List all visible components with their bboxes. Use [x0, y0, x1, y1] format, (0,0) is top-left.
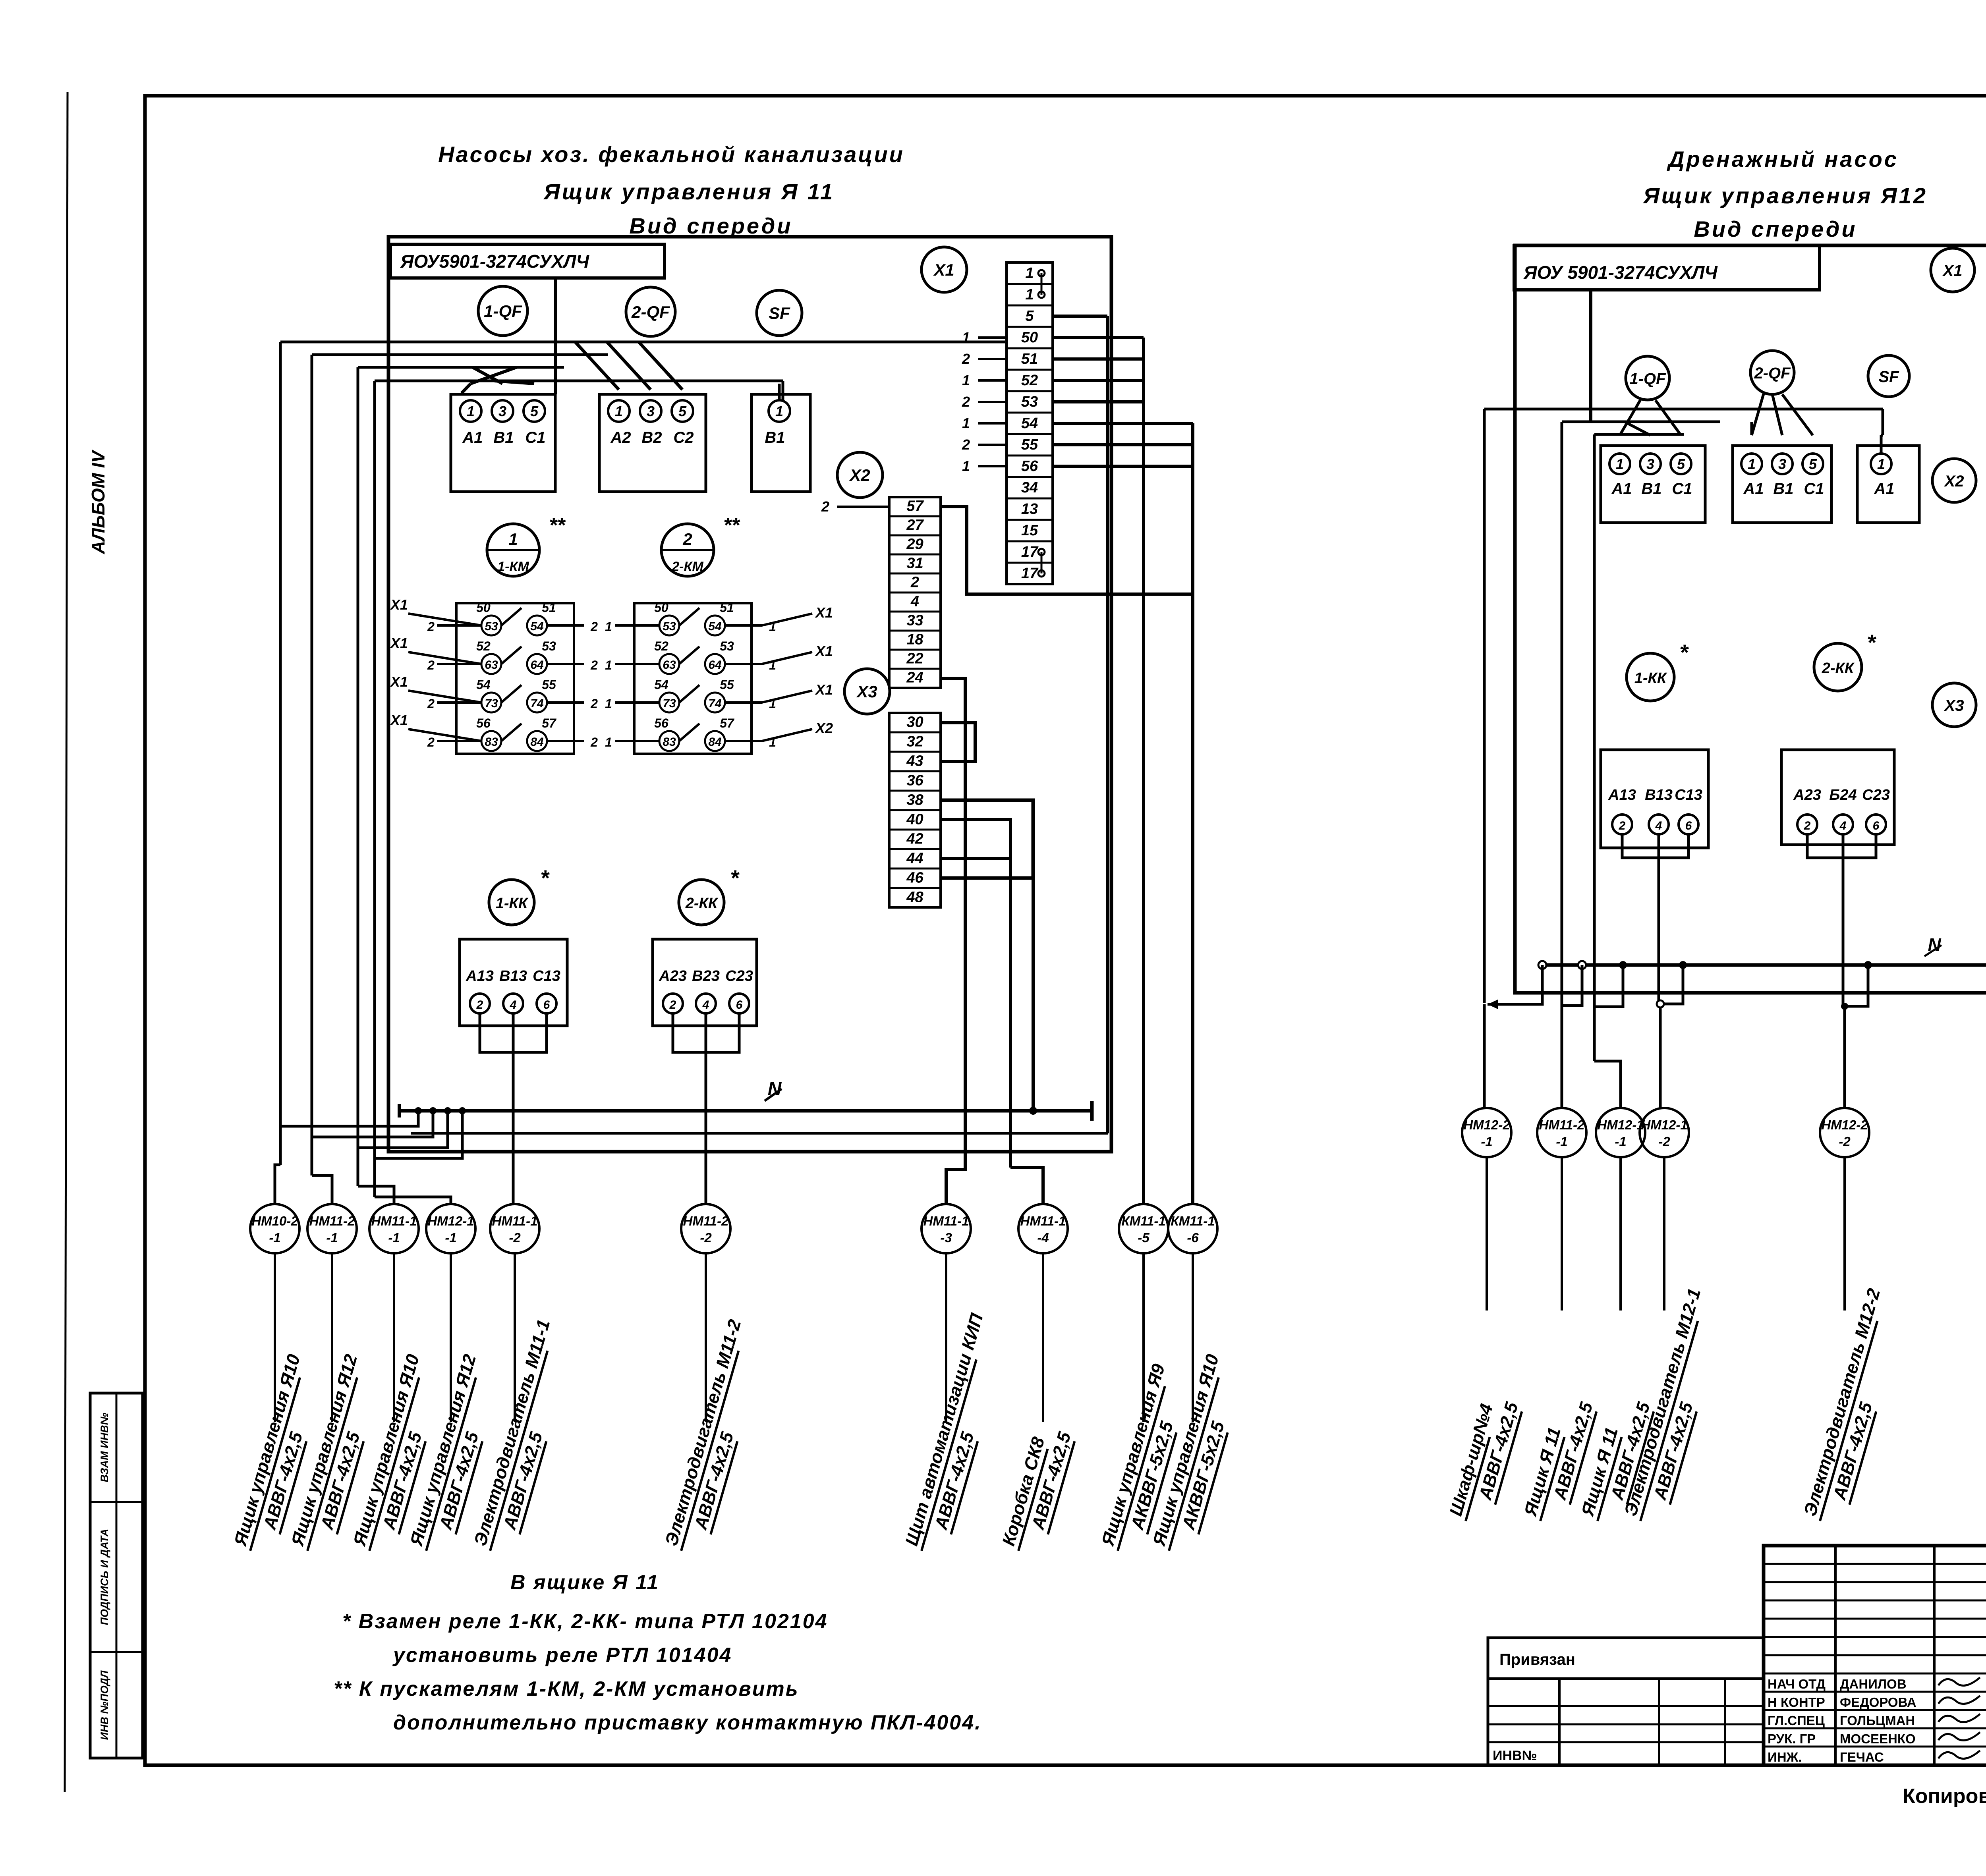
svg-text:50: 50	[654, 600, 668, 615]
svg-text:ГОЛЬЦМАН: ГОЛЬЦМАН	[1840, 1713, 1915, 1728]
neutral bus N of Я12	[1541, 963, 1986, 967]
circuit breaker 1-QF right	[1626, 356, 1669, 400]
svg-text:SF: SF	[769, 304, 790, 322]
svg-text:2-КК: 2-КК	[1822, 660, 1855, 677]
terminal box of 1-КК А13 В13 С13	[460, 939, 567, 1026]
cable circle НМ11-1-1	[369, 1204, 419, 1253]
title block signatures	[1938, 1677, 1980, 1685]
wire from right label box down	[1589, 290, 1592, 422]
svg-text:ДАНИЛОВ: ДАНИЛОВ	[1840, 1677, 1907, 1691]
svg-text:1: 1	[605, 735, 612, 749]
svg-text:-6: -6	[1187, 1230, 1199, 1245]
svg-text:50: 50	[1021, 329, 1038, 346]
wire bundle to box3 right	[1882, 409, 1884, 435]
cable label Электродвигатель М11-2	[660, 1317, 769, 1558]
wire 1-КК right to cable НМ12-1-2	[1658, 834, 1660, 1004]
svg-text:40: 40	[906, 811, 923, 828]
svg-text:1: 1	[962, 329, 970, 345]
svg-text:А23: А23	[659, 968, 687, 984]
svg-text:А13: А13	[466, 968, 494, 984]
X1 left wire stubs with numbers	[978, 336, 1007, 339]
svg-text:-1: -1	[269, 1230, 280, 1245]
svg-text:X2: X2	[1944, 473, 1964, 490]
svg-text:2: 2	[590, 658, 598, 672]
svg-text:1-КМ: 1-КМ	[497, 559, 529, 574]
svg-text:*: *	[540, 865, 550, 890]
cable circle НМ11-1-3	[922, 1204, 971, 1253]
svg-text:53: 53	[663, 620, 676, 633]
aux contact block of 1-КМ	[456, 603, 574, 754]
wire bracket under 1-КК box	[480, 1013, 547, 1052]
svg-text:-1: -1	[388, 1230, 400, 1245]
svg-text:ИНЖ.: ИНЖ.	[1768, 1750, 1802, 1764]
svg-text:X3: X3	[856, 682, 877, 701]
svg-text:84: 84	[708, 735, 722, 749]
circuit breaker 1-QF	[478, 286, 527, 336]
svg-text:В13: В13	[1645, 787, 1673, 803]
enclosure box Я12	[1515, 245, 1986, 993]
cable label Коробка СК8	[997, 1423, 1076, 1558]
svg-text:НМ11-1: НМ11-1	[923, 1214, 969, 1228]
svg-text:2: 2	[476, 998, 483, 1011]
vertical wire X1-54 down to cable КМ11-1-6	[1191, 423, 1194, 1204]
svg-text:Вид спереди: Вид спереди	[1694, 216, 1857, 241]
svg-text:НМ11-2: НМ11-2	[1539, 1117, 1585, 1132]
svg-text:2: 2	[910, 574, 919, 591]
svg-text:1: 1	[1616, 456, 1624, 472]
cable label Ящик управления Я12 (4)	[405, 1352, 504, 1558]
cable label Электродвигатель М12-1	[1619, 1286, 1729, 1528]
wires 1-QF to terminal box 1	[471, 367, 516, 384]
svg-text:1: 1	[605, 620, 612, 634]
svg-text:2-КК: 2-КК	[685, 895, 719, 912]
contactor 2-КМ symbol	[661, 524, 714, 576]
svg-text:1: 1	[467, 403, 475, 419]
svg-text:В ящике Я 11: В ящике Я 11	[510, 1571, 659, 1594]
svg-text:4: 4	[510, 998, 517, 1011]
svg-text:1: 1	[769, 658, 776, 672]
svg-text:1: 1	[775, 403, 783, 419]
svg-text:30: 30	[906, 714, 923, 730]
cable tails below circles Я12	[1486, 1157, 1488, 1310]
svg-text:НМ12-1: НМ12-1	[1641, 1117, 1687, 1132]
riser elbows to cable circles	[275, 1165, 280, 1204]
svg-text:42: 42	[906, 830, 923, 847]
svg-text:X1: X1	[933, 261, 954, 279]
cable label Ящик Я 11 (1)	[1519, 1393, 1598, 1528]
svg-text:В1: В1	[765, 429, 785, 446]
svg-text:А1: А1	[462, 429, 483, 446]
svg-text:Н КОНТР: Н КОНТР	[1768, 1695, 1825, 1710]
svg-text:1: 1	[1877, 456, 1885, 472]
svg-text:*: *	[730, 865, 740, 890]
svg-text:5: 5	[530, 403, 539, 419]
svg-text:X1: X1	[815, 681, 833, 698]
wire bracket under right 2-КК box	[1807, 834, 1876, 858]
wire bundle left risers of Я11	[279, 342, 282, 1165]
svg-text:X1: X1	[390, 596, 408, 613]
riser elbow to НМ12-1-1	[1594, 1061, 1621, 1108]
thermal relay 2-КК symbol	[679, 880, 724, 925]
svg-text:МОСЕЕНКО: МОСЕЕНКО	[1840, 1731, 1916, 1746]
terminal strip id circle X2	[837, 452, 883, 498]
cable label Ящик управления Я10 (3)	[348, 1352, 448, 1558]
svg-text:73: 73	[663, 697, 676, 710]
svg-text:3: 3	[1778, 456, 1786, 472]
svg-text:ИНВ№: ИНВ№	[1493, 1748, 1537, 1763]
left stamp column boxes	[90, 1393, 143, 1758]
aux contact block of 2-КМ	[634, 603, 752, 754]
svg-text:НМ11-2: НМ11-2	[683, 1214, 729, 1228]
svg-text:X2: X2	[815, 720, 833, 736]
svg-text:57: 57	[906, 498, 924, 515]
svg-text:-3: -3	[940, 1230, 952, 1245]
svg-text:53: 53	[720, 639, 734, 653]
svg-text:-2: -2	[700, 1230, 712, 1245]
svg-text:* Взамен реле 1-КК, 2-КК- тип: * Взамен реле 1-КК, 2-КК- типа РТЛ 10210…	[342, 1610, 828, 1633]
svg-text:X1: X1	[390, 712, 408, 728]
svg-text:С23: С23	[725, 968, 753, 984]
cable label Шкаф-шр№4	[1445, 1393, 1524, 1528]
svg-text:74: 74	[708, 697, 722, 710]
svg-text:74: 74	[530, 697, 544, 710]
svg-text:С13: С13	[1675, 787, 1702, 803]
svg-text:С1: С1	[1804, 480, 1824, 498]
cable circle КМ11-1-6	[1168, 1204, 1217, 1253]
svg-text:4: 4	[910, 593, 919, 610]
thermal relay 1-КК symbol	[489, 880, 534, 925]
svg-text:В1: В1	[1641, 480, 1661, 498]
attachment box Привязан	[1488, 1638, 1764, 1679]
svg-text:2: 2	[962, 351, 970, 367]
N drops right section	[1538, 961, 1546, 969]
svg-text:НМ11-2: НМ11-2	[309, 1214, 355, 1228]
svg-text:РУК. ГР: РУК. ГР	[1768, 1731, 1816, 1746]
terminal box of SF pin 1 / В1	[752, 394, 810, 492]
svg-text:*: *	[1679, 640, 1689, 665]
svg-text:31: 31	[906, 555, 923, 572]
svg-text:29: 29	[906, 536, 923, 553]
svg-text:1-QF: 1-QF	[1629, 370, 1666, 388]
svg-text:6: 6	[1873, 819, 1880, 832]
wire 1-КК to cable НМ11-1-2	[512, 1013, 515, 1204]
wires from X1 rows to the right	[1053, 315, 1107, 318]
svg-text:1-КК: 1-КК	[496, 895, 529, 912]
N bus junction dots	[415, 1107, 422, 1114]
terminal box of 2-QF pins 1 3 5 / А2 В2 С2	[599, 394, 706, 492]
paper edge line	[65, 92, 68, 1792]
svg-text:3: 3	[498, 403, 506, 419]
svg-text:-2: -2	[1658, 1134, 1670, 1149]
svg-text:АЛЬБОМ IV: АЛЬБОМ IV	[88, 450, 108, 555]
svg-text:НМ12-1: НМ12-1	[427, 1214, 474, 1228]
svg-text:57: 57	[720, 716, 735, 730]
svg-text:Дренажный насос: Дренажный насос	[1667, 147, 1899, 172]
svg-text:53: 53	[485, 620, 498, 633]
svg-text:НМ11-1: НМ11-1	[1020, 1214, 1066, 1228]
svg-text:В23: В23	[692, 968, 720, 984]
thermal relay 2-КК right	[1814, 643, 1862, 691]
svg-text:2: 2	[1619, 819, 1626, 832]
svg-text:2-КМ: 2-КМ	[671, 559, 703, 574]
svg-text:ИНВ №ПОДЛ: ИНВ №ПОДЛ	[99, 1670, 110, 1740]
svg-text:-1: -1	[445, 1230, 456, 1245]
jumper on X1 cells 17-17	[1038, 549, 1045, 555]
svg-text:2: 2	[427, 620, 435, 634]
svg-text:НМ12-2: НМ12-2	[1463, 1117, 1510, 1132]
svg-text:**: **	[549, 514, 566, 537]
wire bracket under 2-КК box	[673, 1013, 739, 1052]
svg-text:X1: X1	[390, 674, 408, 690]
svg-text:51: 51	[542, 600, 556, 615]
svg-text:5: 5	[1025, 308, 1034, 324]
circuit breaker SF right	[1868, 355, 1909, 397]
svg-text:2-QF: 2-QF	[1754, 365, 1791, 382]
svg-text:4: 4	[702, 998, 709, 1011]
wires 2-QF right to terminal box 2	[1752, 394, 1764, 435]
svg-text:4: 4	[1839, 819, 1847, 832]
svg-text:2: 2	[427, 658, 435, 672]
svg-text:83: 83	[485, 735, 498, 749]
svg-text:Привязан: Привязан	[1499, 1651, 1575, 1668]
svg-text:2: 2	[590, 620, 598, 634]
svg-text:54: 54	[530, 620, 544, 633]
svg-text:2: 2	[682, 530, 692, 548]
svg-text:2-QF: 2-QF	[631, 303, 670, 322]
svg-text:63: 63	[663, 658, 676, 672]
cable circle НМ12-1-1	[1596, 1108, 1645, 1157]
svg-text:53: 53	[542, 639, 556, 653]
svg-text:4: 4	[1655, 819, 1662, 832]
svg-text:-5: -5	[1138, 1230, 1149, 1245]
terminal strip id circle X3 right	[1932, 683, 1976, 727]
svg-text:1: 1	[1025, 286, 1034, 303]
svg-text:54: 54	[654, 677, 668, 692]
svg-text:53: 53	[1021, 394, 1038, 410]
jumper on X1 cells 1-1	[1038, 270, 1045, 276]
N bus drops to risers	[280, 1111, 418, 1126]
svg-text:44: 44	[906, 850, 923, 867]
svg-text:36: 36	[906, 772, 923, 789]
svg-text:С23: С23	[1862, 787, 1890, 803]
svg-text:1: 1	[1748, 456, 1756, 472]
svg-text:Насосы хоз. фекальной канализа: Насосы хоз. фекальной канализации	[438, 142, 904, 167]
terminal strip X2 of Я11	[889, 497, 941, 688]
cable circle КМ11-1-5	[1119, 1204, 1168, 1253]
svg-text:63: 63	[485, 658, 498, 672]
svg-text:-1: -1	[326, 1230, 338, 1245]
svg-text:НАЧ ОТД: НАЧ ОТД	[1768, 1677, 1826, 1691]
svg-text:2: 2	[590, 697, 598, 711]
svg-text:2: 2	[962, 436, 970, 453]
svg-text:17: 17	[1021, 565, 1039, 582]
svg-text:1: 1	[605, 658, 612, 672]
wire bundle horizontals of Я12	[1484, 408, 1883, 411]
svg-text:-2: -2	[1839, 1134, 1851, 1149]
2-КМ block right X1/X2 callouts	[615, 624, 659, 627]
svg-text:ГЕЧАС: ГЕЧАС	[1840, 1750, 1884, 1764]
bracket right of X3 rows 38-46	[941, 800, 1033, 878]
thermal relay 1-КК right	[1627, 653, 1674, 701]
contactor 1-КМ symbol	[487, 524, 539, 576]
svg-text:А2: А2	[610, 429, 631, 446]
wire X3 outer bracket down to N bus	[1032, 878, 1035, 1111]
svg-text:5: 5	[678, 403, 687, 419]
svg-text:2: 2	[821, 498, 829, 515]
svg-text:А1: А1	[1743, 480, 1764, 498]
svg-text:34: 34	[1021, 479, 1038, 496]
svg-text:НМ11-1: НМ11-1	[371, 1214, 417, 1228]
svg-text:52: 52	[1021, 372, 1038, 389]
svg-text:В1: В1	[1773, 480, 1793, 498]
svg-text:дополнительно приставку контак: дополнительно приставку контактную ПКЛ-4…	[393, 1711, 982, 1734]
wire bundle horizontals of Я11	[280, 341, 1005, 344]
svg-text:ПОДПИСЬ И ДАТА: ПОДПИСЬ И ДАТА	[99, 1529, 110, 1625]
svg-text:ГЛ.СПЕЦ: ГЛ.СПЕЦ	[1768, 1713, 1825, 1728]
svg-text:SF: SF	[1878, 368, 1899, 386]
svg-text:64: 64	[708, 658, 722, 672]
svg-text:КМ11-1: КМ11-1	[1121, 1214, 1165, 1228]
svg-text:ЯОУ5901-3274СУХЛЧ: ЯОУ5901-3274СУХЛЧ	[400, 251, 589, 272]
cable circle НМ11-2-1	[307, 1204, 357, 1253]
svg-text:X1: X1	[815, 643, 833, 659]
wire SF to box В1	[782, 381, 784, 400]
cable circle НМ12-2-2	[1820, 1108, 1869, 1157]
svg-text:43: 43	[906, 753, 923, 769]
circuit breaker 2-QF right	[1750, 351, 1794, 394]
svg-text:А1: А1	[1611, 480, 1632, 498]
circuit breaker SF	[757, 290, 802, 336]
svg-text:1: 1	[962, 458, 970, 474]
svg-text:17: 17	[1021, 544, 1039, 560]
svg-text:2: 2	[427, 735, 435, 749]
svg-text:НМ12-2: НМ12-2	[1821, 1117, 1868, 1132]
svg-text:46: 46	[906, 869, 923, 886]
svg-text:2: 2	[669, 998, 676, 1011]
svg-text:Копировал Коршунова: Копировал Коршунова	[1903, 1785, 1986, 1808]
svg-text:**: **	[723, 514, 740, 537]
cable label Ящик управления Я10 (1)	[229, 1352, 328, 1558]
svg-text:Вид спереди: Вид спереди	[629, 213, 792, 238]
svg-text:Ящик управления Я 11: Ящик управления Я 11	[543, 179, 835, 204]
svg-text:56: 56	[476, 716, 491, 730]
vertical wire X1-50 down to cable КМ11-1-5	[1142, 338, 1145, 1204]
svg-text:С13: С13	[533, 968, 560, 984]
cable circle НМ11-1-2	[490, 1204, 539, 1253]
terminal box 1 right pins 1 3 5 / А1 В1 С1	[1601, 446, 1705, 523]
svg-text:** К пускателям 1-КМ, 2-КМ ус: ** К пускателям 1-КМ, 2-КМ установить	[334, 1677, 799, 1700]
svg-text:27: 27	[906, 517, 924, 534]
wire to cable НМ11-1-4	[1010, 1168, 1043, 1204]
svg-text:X2: X2	[849, 466, 870, 484]
circuit breaker 2-QF	[626, 287, 675, 336]
wire from label box to terminal box 1	[554, 278, 557, 394]
svg-text:2: 2	[962, 394, 970, 410]
svg-text:1: 1	[769, 735, 776, 749]
svg-text:1-QF: 1-QF	[484, 302, 522, 321]
terminal strip id circle X3	[844, 669, 890, 714]
svg-text:33: 33	[906, 612, 923, 629]
svg-text:55: 55	[720, 677, 734, 692]
svg-text:2: 2	[427, 697, 435, 711]
svg-text:Ящик управления Я12: Ящик управления Я12	[1642, 183, 1928, 208]
svg-text:55: 55	[1021, 436, 1038, 453]
svg-text:24: 24	[906, 670, 923, 686]
terminal strip id circle X2 right	[1932, 459, 1976, 502]
svg-text:-2: -2	[509, 1230, 521, 1245]
terminal strip id circle X1 right	[1931, 248, 1974, 292]
title block left grid	[1764, 1563, 1986, 1565]
cable label Ящик управления Я10 (10)	[1148, 1352, 1247, 1558]
lower bus of Я11	[411, 1132, 1108, 1135]
svg-text:-1: -1	[1481, 1134, 1492, 1149]
svg-text:НМ12-1: НМ12-1	[1597, 1117, 1644, 1132]
svg-text:-1: -1	[1615, 1134, 1626, 1149]
svg-text:48: 48	[906, 889, 923, 905]
terminal strip X3 of Я11	[889, 713, 941, 907]
svg-text:73: 73	[485, 697, 498, 710]
svg-text:1: 1	[1025, 265, 1034, 282]
type label box ЯОУ5901-3274СУХЛЧ	[390, 244, 665, 278]
svg-text:22: 22	[906, 650, 923, 667]
svg-text:ВЗАМ ИНВ№: ВЗАМ ИНВ№	[99, 1413, 110, 1482]
wire X2-57 right, down and right to vertical x3003	[941, 507, 1193, 594]
svg-text:X3: X3	[1944, 697, 1964, 714]
svg-text:13: 13	[1021, 501, 1038, 517]
svg-text:84: 84	[530, 735, 544, 749]
cable label Ящик управления Я9	[1097, 1362, 1193, 1558]
cable label Электродвигатель М12-2	[1799, 1286, 1909, 1528]
wire X2-24 down to cable НМ11-1-3	[941, 678, 965, 1204]
wire 2-КК to cable НМ11-2-2	[705, 1013, 707, 1204]
svg-text:1: 1	[962, 372, 970, 388]
svg-text:1: 1	[508, 530, 518, 548]
svg-text:52: 52	[654, 639, 668, 653]
svg-text:Б24: Б24	[1829, 787, 1857, 803]
vertical wire x2788 (X1-5 to lower bus)	[1106, 316, 1109, 1133]
svg-text:X1: X1	[390, 635, 408, 651]
svg-text:1-КК: 1-КК	[1634, 670, 1667, 687]
svg-text:А1: А1	[1874, 480, 1894, 498]
wires 2-QF to terminal box 2	[575, 342, 619, 390]
svg-text:НМ10-2: НМ10-2	[251, 1214, 298, 1228]
svg-text:1: 1	[605, 697, 612, 711]
svg-text:6: 6	[1685, 819, 1692, 832]
svg-text:1: 1	[769, 697, 776, 711]
svg-text:С2: С2	[673, 429, 694, 446]
svg-text:С1: С1	[525, 429, 545, 446]
wire X3 bracket down to cable НМ11-1-4	[1009, 859, 1012, 1168]
svg-text:38: 38	[906, 791, 923, 808]
svg-text:X1: X1	[815, 604, 833, 621]
svg-text:15: 15	[1021, 522, 1038, 539]
enclosure box Я11	[388, 237, 1111, 1152]
cable circle НМ10-2-1	[250, 1204, 299, 1253]
svg-text:54: 54	[476, 677, 491, 692]
svg-text:56: 56	[1021, 458, 1038, 475]
terminal strip X1 of Я11	[1007, 262, 1053, 584]
svg-text:1: 1	[962, 415, 970, 431]
cable tails below circles Я11	[274, 1253, 276, 1422]
svg-text:1: 1	[769, 620, 776, 634]
svg-text:*: *	[1867, 630, 1876, 655]
X2 left stub wire 2	[837, 506, 889, 508]
svg-text:В13: В13	[499, 968, 527, 984]
svg-text:57: 57	[542, 716, 557, 730]
svg-text:6: 6	[543, 998, 550, 1011]
cable circle НМ12-2-1	[1462, 1108, 1511, 1157]
terminal box 2 right pins 1 3 5 / А1 В1 С1	[1733, 446, 1831, 523]
